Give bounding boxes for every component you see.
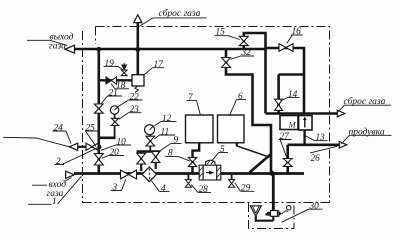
label leader: 17: [144, 68, 164, 75]
label leader: 5: [212, 153, 228, 161]
wire: thin diagonal from box 6: [237, 146, 270, 157]
arrow: purge outlet: [339, 142, 347, 149]
label leader: 22: [118, 100, 143, 107]
label leader: 32: [231, 56, 254, 59]
svg-text:6: 6: [238, 92, 243, 102]
svg-text:газа: газа: [49, 42, 66, 52]
node: riser tee at outlet line: [97, 47, 102, 52]
label leader: продувка: [341, 135, 392, 144]
svg-text:16: 16: [292, 27, 302, 37]
svg-text:13: 13: [316, 133, 326, 143]
wire: valve 8 riser and box 7 stub: [193, 143, 200, 174]
valve 27: [283, 159, 292, 167]
valve 32: [222, 58, 231, 68]
label leader: 1: [28, 176, 82, 204]
svg-text:32: 32: [241, 48, 252, 58]
svg-text:29: 29: [241, 184, 251, 194]
svg-text:сброс газа: сброс газа: [159, 8, 201, 19]
label leader: выход газа: [27, 40, 67, 45]
label leader: 19: [104, 67, 124, 71]
label leader: 28: [191, 185, 211, 193]
wire: filter manifold risers: [141, 152, 156, 172]
label leader: 3: [111, 179, 126, 190]
wire: impulse line y80.3: [99, 79, 132, 81]
svg-text:22: 22: [130, 92, 140, 102]
label leader: 24: [53, 131, 72, 144]
svg-text:21: 21: [109, 88, 118, 98]
gauge 22: [110, 106, 118, 114]
arrow: gas outlet: [65, 45, 75, 53]
node: junction at tap line: [96, 144, 101, 149]
label leader: 23: [119, 113, 142, 120]
valve 19 relief: [121, 63, 127, 76]
wire: bypass line valve 32 path: [226, 49, 271, 174]
node: bypass tee at main line: [270, 171, 275, 176]
svg-text:3: 3: [112, 183, 118, 193]
svg-text:9: 9: [174, 136, 179, 146]
valve 29: [229, 180, 235, 188]
label leader: 9: [158, 143, 182, 152]
svg-text:17: 17: [154, 60, 164, 70]
valve 18: [106, 77, 111, 84]
wire: outlet gas line y49: [75, 48, 266, 51]
svg-text:12: 12: [162, 114, 172, 124]
wire: header under gauge 22: [98, 137, 116, 140]
leader: tap line continuation to left: [3, 137, 69, 147]
svg-text:20: 20: [110, 148, 120, 158]
label leader: 10: [101, 145, 131, 150]
svg-text:24: 24: [54, 123, 64, 133]
wire: filter manifold header: [137, 150, 160, 153]
regulator box 6: [218, 115, 245, 143]
svg-text:14: 14: [288, 90, 298, 100]
svg-text:25: 25: [86, 123, 96, 133]
svg-text:11: 11: [161, 127, 170, 137]
enclosure dash-dot boundary: [83, 27, 330, 203]
drain squiggle under box 17: [135, 86, 139, 92]
valve 21: [94, 104, 103, 113]
label leader: 20: [102, 156, 124, 159]
filter 4 diamond: [142, 167, 157, 182]
svg-text:5: 5: [220, 145, 225, 155]
svg-text:сброс газа: сброс газа: [344, 96, 386, 107]
arrow: gas inlet: [66, 171, 75, 178]
valve 16: [279, 44, 293, 52]
valve 8: [188, 157, 196, 166]
node: vent riser tee: [135, 47, 140, 52]
label leader: 13: [305, 136, 328, 141]
label leader: 11: [154, 135, 175, 139]
label leader: 8: [165, 156, 190, 161]
wire: main inlet line y173.5: [74, 172, 304, 175]
filter box 17: [132, 75, 144, 86]
solenoid valve 13 box M: [280, 116, 298, 130]
valve 10: [137, 153, 146, 164]
label leader: 6: [230, 100, 246, 115]
gauge 12: [145, 125, 155, 135]
label leader: сброс газа top: [139, 18, 207, 27]
valve 14: [275, 99, 283, 110]
label leader: 16: [287, 35, 303, 43]
valve 11: [146, 136, 155, 146]
relief device item 30: [271, 211, 278, 217]
funnel item 30: [250, 206, 261, 216]
wire: gauge 22 stem: [114, 114, 116, 138]
arrow: relief outlet: [337, 110, 345, 117]
label leader: 2: [55, 148, 98, 165]
svg-text:19: 19: [105, 59, 115, 69]
svg-text:4: 4: [161, 184, 166, 194]
svg-text:7: 7: [188, 93, 193, 103]
valve 23: [111, 118, 118, 125]
label leader: 21: [101, 96, 122, 104]
label leader: 26: [310, 146, 337, 153]
wire: inlet tap line y146.8: [70, 146, 101, 148]
svg-text:2: 2: [56, 157, 61, 167]
valve 15: [239, 36, 248, 45]
solenoid valve 13 actuator box: [299, 116, 312, 131]
svg-text:М: М: [288, 120, 297, 130]
label leader: 4: [152, 181, 170, 192]
wire: meter drain taps: [188, 174, 231, 180]
item 30 dash-dot box: [249, 203, 295, 229]
svg-text:15: 15: [216, 28, 226, 38]
label leader: 29: [235, 183, 255, 192]
svg-text:10: 10: [117, 137, 127, 147]
wire: funnel piping item 30: [255, 216, 274, 221]
wire: thick diagonal to bypass riser: [250, 154, 272, 173]
svg-text:продувка: продувка: [349, 126, 385, 137]
valve 3: [121, 170, 137, 179]
arrow: tap outlet 24: [70, 143, 78, 150]
meter 5: [199, 160, 221, 180]
label leader: 27: [279, 140, 292, 158]
svg-text:28: 28: [199, 185, 209, 195]
wire: box 6 stub: [236, 143, 238, 147]
svg-text:23: 23: [130, 105, 140, 115]
label leader: 25: [85, 131, 98, 146]
wire: valve 14 branch: [279, 75, 304, 114]
valve 20: [94, 154, 103, 165]
wire: gauge 12 stem: [149, 135, 151, 152]
regulator box 7: [186, 115, 214, 143]
wire: vent elbow over valve 15: [244, 33, 266, 114]
label leader: вход газа: [32, 178, 72, 186]
valve 28: [185, 180, 191, 188]
svg-text:1: 1: [52, 197, 57, 207]
label leader: 7: [187, 101, 201, 115]
svg-text:30: 30: [309, 202, 320, 212]
wire: relief header y113.5: [266, 112, 338, 115]
svg-text:8: 8: [168, 149, 173, 159]
wire: purge line and valve 27 riser: [288, 145, 340, 174]
wire: left instrument riser x98.8: [98, 49, 101, 174]
label leader: 18: [111, 84, 129, 89]
label leader: 14: [281, 98, 300, 101]
valve 25: [86, 143, 98, 150]
label leader: сброс газа right: [338, 105, 391, 112]
wire: valve 16 line: [266, 48, 305, 114]
valve 9: [151, 151, 160, 162]
svg-text:26: 26: [311, 154, 321, 164]
wire: vent riser to top arrow: [137, 23, 140, 75]
label leader: 12: [154, 122, 176, 126]
svg-text:27: 27: [280, 132, 290, 142]
label leader: 15: [215, 36, 240, 40]
label leader: 30: [282, 209, 323, 222]
wire: solenoid box stub: [303, 130, 305, 145]
arrow: vent to atmosphere: [134, 15, 142, 23]
